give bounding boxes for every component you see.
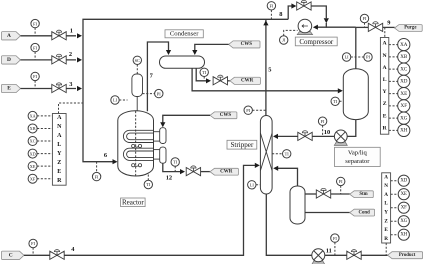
- svg-text:XB: XB: [400, 54, 408, 60]
- dashed tap TI separator: [339, 100, 343, 102]
- vapour liquid separator vessel: [343, 69, 368, 120]
- composition indicator XH analyzer 3: [398, 229, 409, 240]
- arrow into separator: [338, 88, 343, 93]
- svg-text:XC: XC: [30, 139, 36, 144]
- svg-text:E: E: [57, 169, 61, 175]
- dashed link XB analyzer 1: [37, 127, 52, 129]
- label box Compressor: [295, 37, 337, 46]
- svg-text:5: 5: [268, 66, 271, 73]
- dashed tap PI stripper: [252, 109, 266, 111]
- stripper reboiler vessel: [290, 186, 305, 224]
- svg-text:CWS: CWS: [241, 42, 253, 47]
- svg-text:FI: FI: [333, 236, 337, 241]
- flow indicator FI stream 8: [267, 2, 275, 10]
- svg-text:A: A: [57, 133, 62, 139]
- dashed link XE analyzer 2: [389, 93, 398, 95]
- dashed link XF analyzer 1: [37, 178, 52, 180]
- composition indicator XE analyzer 1: [28, 162, 37, 171]
- svg-text:XE: XE: [401, 192, 407, 197]
- dashed link XD analyzer 2: [389, 80, 398, 82]
- svg-text:Reactor: Reactor: [122, 199, 144, 207]
- composition indicator XA analyzer 2: [398, 39, 410, 51]
- wire separator overhead to compressor: [326, 26, 356, 28]
- svg-text:FI: FI: [339, 179, 343, 184]
- feed flag D: [2, 56, 21, 64]
- svg-text:FI: FI: [95, 174, 99, 179]
- wire stream 4 from C to stripper: [24, 165, 257, 255]
- wire condensate from reboiler: [305, 212, 350, 214]
- stream 7 arrow into condenser: [166, 50, 171, 55]
- valve condenser CWR: [213, 75, 227, 85]
- feed flag A: [2, 32, 21, 40]
- wire CWS to condenser: [195, 44, 229, 50]
- wire stream 11 pump to valve: [325, 254, 347, 256]
- svg-text:TI: TI: [202, 70, 207, 75]
- dashed link XB analyzer 2: [389, 56, 398, 58]
- analyzer U2 box: [380, 38, 388, 135]
- dashed tap TI stripper: [272, 153, 282, 155]
- svg-text:XG: XG: [400, 115, 408, 121]
- svg-text:A: A: [384, 192, 388, 198]
- level indicator LI stripper: [248, 181, 256, 189]
- sink flag Product: [388, 252, 423, 259]
- svg-text:TI: TI: [333, 99, 338, 104]
- wire to CWR flag condenser: [228, 80, 230, 82]
- flow indicator FI stream 6: [92, 172, 100, 180]
- composition indicator XE analyzer 2: [398, 88, 410, 100]
- wire reboiler vapour return: [277, 168, 298, 186]
- dashed link XE analyzer 1: [37, 165, 52, 167]
- reactor vessel: [118, 111, 154, 176]
- svg-text:Stripper: Stripper: [230, 141, 253, 149]
- svg-text:TI: TI: [146, 182, 151, 187]
- reactor cooling coil lower U-tube: [123, 148, 153, 160]
- dashed link XD analyzer 1: [37, 153, 52, 155]
- feed A arrow into header: [77, 33, 82, 38]
- svg-text:CWS: CWS: [220, 113, 232, 118]
- dashed tap FI steam: [340, 186, 342, 194]
- wire stripper overhead stream 5: [265, 19, 267, 115]
- svg-text:Z: Z: [57, 160, 61, 166]
- composition indicator XE analyzer 3: [398, 189, 409, 200]
- wire bypass down to suction: [311, 6, 326, 18]
- utility flag CWR condenser: [230, 77, 261, 84]
- dashed link JI to compressor: [284, 30, 298, 35]
- dashed tap FI stream 6: [96, 162, 98, 173]
- wire stream 11 to product flag: [361, 254, 391, 256]
- dashed link XE analyzer 3: [391, 193, 399, 195]
- power indicator JI compressor: [280, 36, 288, 44]
- temperature indicator TI separator: [331, 97, 339, 105]
- svg-text:separator: separator: [345, 158, 370, 165]
- label box Vap liq separator: [335, 147, 381, 166]
- svg-text:9: 9: [387, 19, 390, 26]
- valve feed E: [52, 83, 66, 93]
- reboiler return arrow into stripper: [273, 166, 278, 171]
- svg-text:2: 2: [69, 51, 72, 58]
- CWR arrow condenser: [206, 78, 211, 83]
- svg-text:XF: XF: [401, 103, 408, 109]
- feed D arrow into header: [77, 57, 82, 62]
- dashed link XA analyzer 2: [389, 44, 398, 46]
- dashed tap TI coolant: [174, 166, 176, 171]
- utility flag CWS reactor: [210, 112, 237, 119]
- svg-text:Cond: Cond: [359, 210, 371, 215]
- wire condenser outlet to separator: [192, 68, 339, 91]
- composition indicator XG analyzer 2: [398, 112, 410, 124]
- composition indicator XA analyzer 1: [28, 111, 37, 120]
- wire separator overhead riser: [355, 27, 357, 69]
- svg-text:Product: Product: [399, 253, 416, 258]
- temperature indicator TI stripper: [283, 150, 291, 158]
- flow indicator FI feed E: [31, 72, 39, 80]
- svg-text:E: E: [7, 86, 11, 92]
- dashed sample line analyzer 3 to product: [385, 243, 387, 255]
- svg-text:LI: LI: [250, 183, 255, 188]
- wire stream 10 pump to valve: [312, 135, 335, 137]
- svg-text:XE: XE: [400, 91, 407, 97]
- svg-text:CWR: CWR: [220, 169, 233, 174]
- coolant header drum upper: [160, 128, 166, 144]
- stripper packing X: [260, 133, 272, 171]
- bypass arrow down: [324, 18, 329, 23]
- svg-text:SC: SC: [135, 58, 140, 63]
- dashed link XA analyzer 1: [37, 115, 52, 117]
- valve feed C: [50, 250, 64, 260]
- dashed link XF analyzer 2: [389, 105, 398, 107]
- dashed tap FI feed A: [34, 28, 36, 36]
- speed controller SC: [133, 56, 141, 64]
- utility flag CWR reactor: [210, 168, 238, 175]
- dashed link SC to standpipe: [136, 65, 138, 75]
- dashed tap FI stream 10: [322, 125, 324, 136]
- label box Stripper: [227, 140, 257, 149]
- svg-text:L: L: [383, 77, 387, 83]
- utility flag CWS condenser: [229, 41, 260, 48]
- svg-text:XC: XC: [400, 66, 408, 72]
- temperature indicator TI reactor: [144, 180, 152, 188]
- vapour standpipe on reactor dome: [136, 97, 138, 111]
- dashed sample line analyzer 2: [384, 27, 386, 37]
- svg-text:XH: XH: [400, 128, 408, 134]
- coolant header drum lower: [160, 147, 166, 163]
- svg-text:3: 3: [69, 81, 72, 88]
- wire feed A to header: [21, 35, 77, 37]
- composition indicator XD analyzer 2: [398, 75, 410, 87]
- svg-text:XD: XD: [30, 151, 36, 156]
- svg-text:Y: Y: [57, 151, 62, 157]
- flow indicator FI purge: [360, 14, 368, 22]
- dashed tap FI stream 8: [270, 10, 272, 19]
- bypass arrow into valve: [291, 3, 296, 8]
- agitator shaft dashed centerline: [135, 111, 137, 176]
- sink flag Purge: [395, 25, 423, 32]
- composition indicator XF analyzer 2: [398, 100, 410, 112]
- dashed tap FI feed E: [34, 81, 36, 89]
- pressure indicator PI separator: [364, 53, 372, 61]
- valve feed A: [52, 30, 66, 40]
- wire separator bottoms stream 10: [347, 120, 355, 137]
- stripper column: [260, 116, 272, 195]
- svg-text:R: R: [384, 236, 388, 242]
- dashed tap TI condenser: [203, 77, 205, 80]
- dashed taps LI PI separator: [351, 56, 364, 58]
- svg-text:11: 11: [326, 248, 332, 255]
- composition indicator XH analyzer 2: [398, 124, 410, 136]
- wire CWS to coolant drum: [163, 115, 210, 123]
- svg-text:FI: FI: [269, 4, 273, 9]
- stream 6 arrow into reactor: [113, 159, 118, 164]
- flow indicator FI stream 10: [318, 117, 326, 125]
- valve purge stream 9: [368, 22, 382, 32]
- condenser shell: [160, 56, 205, 68]
- valve product stream 11: [347, 250, 361, 260]
- flow indicator FI feed A: [31, 19, 39, 27]
- dashed link XH analyzer 3: [391, 234, 399, 236]
- svg-text:1: 1: [70, 27, 73, 34]
- compressor J1: [297, 19, 312, 34]
- svg-text:L: L: [384, 201, 388, 207]
- svg-text:FI: FI: [33, 21, 37, 26]
- svg-text:XA: XA: [400, 42, 408, 48]
- svg-text:XH: XH: [400, 232, 407, 237]
- composition indicator XF analyzer 1: [28, 174, 37, 183]
- stream 4 arrow into stripper: [255, 163, 260, 168]
- svg-text:R: R: [57, 178, 62, 184]
- wire stream 7 reactor to condenser: [147, 42, 168, 111]
- temperature indicator TI condenser: [200, 68, 208, 76]
- valve compressor bypass: [297, 0, 311, 10]
- wire condenser cooling water return: [196, 68, 206, 81]
- svg-text:Condenser: Condenser: [170, 31, 199, 38]
- dashed link XG analyzer 2: [389, 117, 398, 119]
- svg-text:A: A: [7, 33, 11, 39]
- analyzer U3 box: [382, 173, 391, 243]
- feed flag E: [2, 84, 21, 92]
- utility flag Stm: [350, 191, 374, 198]
- dashed tap FI product: [334, 242, 336, 255]
- composition indicator XB analyzer 2: [398, 51, 410, 63]
- svg-text:LI: LI: [345, 55, 350, 60]
- wire stream 10 to stripper: [277, 135, 298, 137]
- level indicator LI reactor: [111, 96, 119, 104]
- wire stream 12 to CWR: [201, 171, 210, 173]
- svg-text:FI: FI: [31, 241, 35, 246]
- svg-text:TI: TI: [173, 160, 178, 165]
- composition indicator XG analyzer 3: [398, 216, 409, 227]
- analyzer U1 box: [52, 114, 66, 186]
- dashed link XH analyzer 2: [389, 129, 398, 131]
- svg-text:Stm: Stm: [359, 192, 367, 197]
- dashed tap PI reactor: [143, 93, 155, 95]
- svg-text:XE: XE: [30, 164, 36, 169]
- label box Condenser: [165, 30, 203, 38]
- dashed tap LI stripper: [256, 184, 260, 186]
- agitator impeller upper: [132, 144, 142, 147]
- svg-text:Compressor: Compressor: [299, 38, 334, 46]
- wire steam valve to flag: [331, 193, 350, 195]
- composition indicator XC analyzer 1: [28, 137, 37, 146]
- label box Reactor: [121, 198, 146, 207]
- pump P2 product: [312, 249, 325, 264]
- svg-text:LI: LI: [113, 98, 118, 103]
- svg-text:C: C: [9, 253, 13, 259]
- wire purge to valve: [356, 26, 369, 28]
- wire steam to reboiler: [305, 193, 317, 195]
- dashed link XG analyzer 3: [391, 220, 399, 222]
- composition indicator XB analyzer 1: [28, 124, 37, 133]
- svg-text:XG: XG: [400, 219, 407, 224]
- svg-text:XD: XD: [400, 178, 407, 183]
- svg-text:10: 10: [324, 129, 330, 136]
- arrow into compressor suction: [313, 25, 318, 30]
- feed E arrow into header: [77, 86, 82, 91]
- stream 5 arrow up at recycle junction: [263, 20, 268, 25]
- svg-text:Z: Z: [383, 101, 387, 107]
- dashed tap TI reactor: [147, 173, 149, 181]
- dashed link XF analyzer 3: [391, 207, 399, 209]
- flow indicator FI steam: [337, 177, 345, 185]
- svg-text:8: 8: [279, 11, 282, 18]
- temperature indicator TI coolant: [171, 158, 179, 166]
- svg-text:PI: PI: [246, 108, 250, 113]
- svg-text:E: E: [383, 113, 387, 119]
- coil header stub wires through reactor wall: [154, 131, 160, 133]
- CWS arrow into condenser: [192, 50, 197, 55]
- composition indicator XF analyzer 3: [398, 202, 409, 213]
- stream 10 arrow into stripper: [273, 134, 278, 139]
- svg-text:E: E: [384, 227, 388, 233]
- wire feed E to header: [21, 88, 77, 90]
- flow indicator FI feed C: [29, 239, 37, 247]
- dashed link XD analyzer 3: [391, 180, 399, 182]
- svg-text:FI: FI: [363, 16, 367, 21]
- svg-text:D: D: [7, 57, 11, 63]
- svg-text:Z: Z: [384, 218, 388, 224]
- wire stream 8 recycle header and feed header down to reactor feed (stream 6): [83, 19, 288, 161]
- valve stream 10: [298, 131, 312, 141]
- dashed tap LI reactor: [119, 99, 127, 101]
- svg-text:A: A: [57, 115, 62, 121]
- dashed tap FI feed C: [32, 248, 34, 256]
- svg-text:12: 12: [166, 174, 172, 181]
- wire feed D to header: [21, 59, 77, 61]
- svg-text:PI: PI: [157, 91, 161, 96]
- svg-text:PI: PI: [366, 55, 370, 60]
- wire stripper bottoms stream 11: [266, 194, 312, 255]
- valve stream 12: [186, 166, 200, 176]
- level indicator LI separator: [342, 53, 350, 61]
- utility flag Cond: [350, 209, 375, 216]
- svg-text:XA: XA: [30, 114, 36, 119]
- svg-text:XF: XF: [30, 176, 36, 181]
- svg-text:FI: FI: [321, 119, 325, 124]
- wire compressor bypass from recycle line: [288, 6, 292, 19]
- svg-text:XD: XD: [400, 79, 408, 85]
- svg-text:Vap/liq: Vap/liq: [348, 150, 368, 157]
- svg-text:Y: Y: [383, 89, 387, 95]
- composition indicator XD analyzer 1: [28, 149, 37, 158]
- svg-text:XF: XF: [401, 205, 407, 210]
- svg-text:Purge: Purge: [404, 26, 416, 31]
- svg-text:XB: XB: [30, 126, 36, 131]
- pressure indicator PI reactor: [155, 89, 163, 97]
- dashed tap FI feed D: [34, 52, 36, 60]
- pump P1 separator bottoms: [334, 130, 347, 145]
- flow indicator FI feed D: [31, 43, 39, 51]
- dashed link XC analyzer 1: [37, 140, 52, 142]
- wire bypass junction to compressor suction: [317, 23, 326, 27]
- valve feed D: [52, 54, 66, 64]
- composition indicator XC analyzer 2: [398, 63, 410, 75]
- feed flag C: [2, 251, 25, 259]
- svg-text:FI: FI: [33, 45, 37, 50]
- dashed sample line analyzer 1 to header: [59, 103, 84, 114]
- composition indicator XD analyzer 3: [398, 175, 409, 186]
- pressure indicator PI stripper: [244, 106, 252, 114]
- agitator impeller lower: [132, 164, 142, 167]
- wire coolant outlet stream 12: [163, 163, 180, 171]
- svg-text:CWR: CWR: [241, 79, 254, 84]
- dashed link XC analyzer 2: [389, 68, 398, 70]
- flow indicator FI product: [331, 234, 339, 242]
- svg-text:TI: TI: [285, 152, 290, 157]
- wire purge valve to flag: [383, 26, 395, 28]
- CWS arrow into coolant drum: [160, 122, 165, 127]
- svg-text:FI: FI: [33, 74, 37, 79]
- svg-text:N: N: [384, 183, 388, 189]
- svg-text:N: N: [57, 124, 62, 130]
- svg-text:A: A: [384, 174, 388, 180]
- svg-text:L: L: [57, 142, 61, 148]
- reactor cooling coil upper U-tube: [123, 130, 153, 142]
- dashed tap FI purge: [364, 23, 366, 28]
- stream 12 arrow: [180, 169, 185, 174]
- svg-text:Y: Y: [384, 209, 388, 215]
- valve steam: [316, 188, 330, 198]
